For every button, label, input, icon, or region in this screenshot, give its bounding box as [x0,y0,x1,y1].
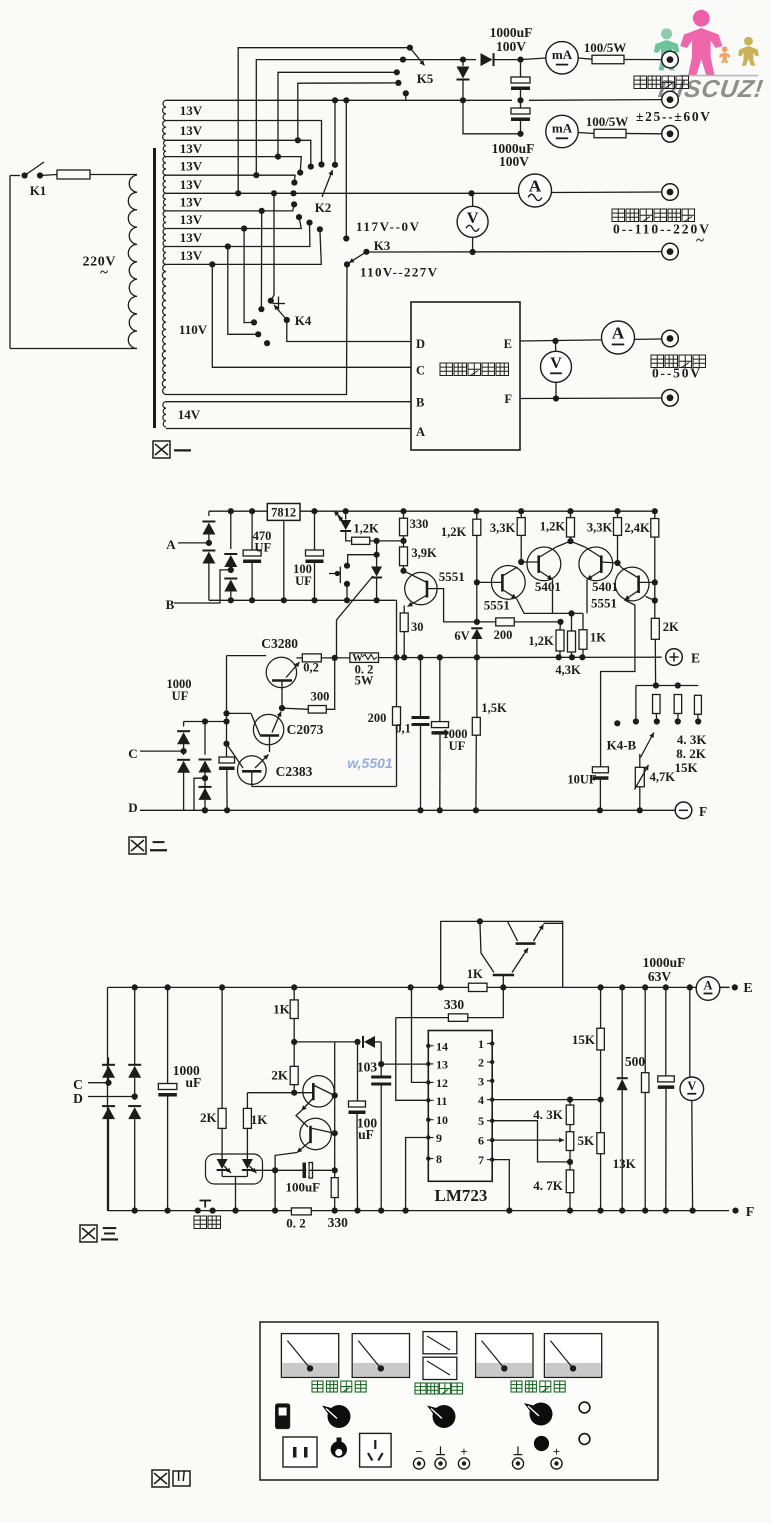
svg-text:⊥: ⊥ [513,1444,523,1458]
resistor 2K [651,618,659,639]
wire pin7 [492,1160,509,1211]
svg-text:K4-B: K4-B [607,738,637,753]
panel meter M1 [281,1334,338,1378]
push switch branch [348,555,377,566]
svg-text:1,2K: 1,2K [353,522,379,536]
svg-text:9: 9 [436,1131,442,1145]
switch K4 riser tap8 [244,229,254,323]
svg-text:100uF: 100uF [285,1180,320,1195]
svg-text:13V: 13V [180,195,203,210]
svg-text:4,3K: 4,3K [555,663,581,677]
switch K1 [22,172,28,178]
svg-text:V: V [467,209,479,227]
svg-text:0--110--220V: 0--110--220V [613,222,709,237]
resistor 0.2 left [302,654,321,662]
transistor Td 5551 [615,567,649,601]
svg-text:UF: UF [254,541,271,555]
svg-text:K4: K4 [295,313,312,328]
panel power switch [276,1404,290,1429]
svg-text:5551: 5551 [439,569,465,584]
meter V dc [541,351,572,382]
svg-text:10: 10 [436,1113,448,1127]
svg-text:1K: 1K [273,1002,291,1017]
svg-text:1: 1 [478,1037,484,1051]
svg-text:1K: 1K [590,631,606,645]
svg-text:13: 13 [436,1057,448,1071]
DC power board box [411,302,520,450]
svg-text:330: 330 [328,1215,349,1230]
transistor C3280 [266,657,296,687]
svg-text:V: V [550,354,562,372]
svg-text:100V: 100V [499,154,529,169]
switch K4 riser tap7 [260,211,262,309]
wire pin4 [492,1099,600,1101]
svg-text:4. 3K: 4. 3K [677,732,708,747]
wire pin11 to 330 line [396,1018,429,1101]
resistors 1.2K/4.3K/1K trio [556,630,564,651]
node 3.9K bottom [400,568,406,574]
label figure-1 [153,441,170,458]
wire board E output [520,339,662,341]
svg-text:F: F [746,1205,755,1220]
terminal out2 [662,91,679,108]
svg-text:14: 14 [436,1039,448,1053]
wire tap4 to K2 contact c3 [166,157,301,173]
svg-text:30: 30 [411,620,424,634]
wire D fig3 [88,1096,135,1098]
svg-text:220V: 220V [83,255,116,270]
svg-text:100/5W: 100/5W [584,40,627,55]
svg-text:D: D [73,1091,83,1106]
svg-text:K5: K5 [417,71,434,86]
svg-text:2: 2 [478,1056,484,1070]
diode column1 with A input [208,511,210,516]
svg-text:B: B [416,396,424,410]
column 3.3K a [517,518,525,536]
svg-text:uF: uF [186,1075,202,1090]
svg-text:100V: 100V [496,39,526,54]
svg-text:+: + [460,1444,467,1459]
nodes lower bus [332,655,338,661]
diode D1 output [460,57,466,63]
wire pin6 wiper [492,1139,564,1141]
svg-text:13V: 13V [180,141,203,156]
resistor 3.9K [400,547,408,566]
wire fig3 bottom bus [108,1210,730,1212]
svg-text:117V--0V: 117V--0V [356,219,420,234]
svg-text:E: E [743,981,752,996]
wire tap10 to K2 contact c9 [166,229,321,264]
node tap5/riser [253,172,259,178]
panel indicator circles [579,1402,590,1413]
wire Td emitter to cap 100F column [601,600,635,766]
wire fig2 mid bus [209,599,397,601]
switch K4 contacts [268,298,274,304]
wire D jog to column B [194,778,205,810]
svg-text:A: A [529,177,542,196]
column 3.3K b [614,518,622,536]
svg-text:1,5K: 1,5K [481,701,507,715]
capacitor column fig3 right [665,987,667,1076]
node tap10/riser [209,261,215,267]
meter mA1 [521,58,547,60]
terminal F fig2 [675,802,692,819]
resistor 1K in bus [469,983,488,991]
SCR column [376,541,378,567]
capacitor C2 1000uF 100V bottom [520,100,522,108]
svg-text:7812: 7812 [271,506,296,520]
LM723 right pins [490,1041,494,1045]
svg-text:14V: 14V [178,407,201,422]
svg-text:uF: uF [358,1127,374,1142]
wire 14V bottom to board A [166,428,411,430]
svg-text:5W: 5W [355,674,374,688]
diode column B fig2 [204,722,206,755]
node K2 c1 [318,161,324,167]
svg-text:1,2K: 1,2K [540,520,566,534]
svg-text:K2: K2 [315,200,332,215]
wire riser tap10 to board C [212,264,411,367]
fig3 top bus nodes [132,984,138,990]
svg-text:C2073: C2073 [287,722,324,737]
capacitor 100F [600,766,602,767]
svg-text:103: 103 [357,1060,378,1075]
wire fig2 bottom bus / D rail [140,809,675,811]
switch K5 [407,45,413,51]
wire 1K-col tie [247,1092,294,1094]
wire B input [174,570,231,603]
column C fig2 [226,656,228,757]
panel frame [260,1322,658,1480]
panel knob right [530,1403,553,1426]
svg-text:A: A [416,425,425,439]
meter V~ AC [457,206,488,237]
svg-text:200: 200 [494,628,513,642]
svg-text:1K: 1K [467,967,483,981]
panel meter M3a [423,1332,457,1354]
svg-text:A: A [704,979,713,993]
label zhi-liu-wen-ya [651,355,664,368]
LED branch with 1.2K [345,511,347,519]
wire to pin13 junction [380,1042,382,1076]
resistor 1.5K column [476,657,478,717]
svg-text:UF: UF [449,739,466,753]
label figure-3 [80,1225,97,1242]
svg-text:200: 200 [368,711,387,725]
transformer secondary 110V winding [162,264,166,394]
svg-text:A: A [612,324,625,343]
capacitor 470UF [251,511,253,550]
resistor 4.7K fig3 [566,1170,574,1193]
transformer secondary winding 13V sections [163,100,166,120]
K4-B wiper arrow [641,733,654,758]
switch K4 riser tap9 [228,247,258,335]
opto LED1 [217,1159,228,1169]
wire 220V primary loop [9,176,11,349]
capacitor 100UF fig2 [314,511,316,550]
svg-text:5K: 5K [578,1133,596,1148]
wire riser L3 [278,72,397,156]
wire riser L4 [298,83,399,140]
svg-text:E: E [504,337,512,351]
column 2K fig3 [221,987,223,1108]
transistor Q1 5551 [405,572,437,604]
panel right small circle knob [534,1436,549,1451]
panel socket three-slot [360,1433,392,1467]
switch K4 riser from tap6 [271,193,274,300]
svg-text:C2383: C2383 [276,764,313,779]
svg-text:2K: 2K [271,1068,289,1083]
nodes bottom bus [202,807,208,813]
svg-text:8. 2K: 8. 2K [676,746,707,761]
wire C input fig2 [140,750,184,752]
node E junction [552,338,558,344]
meter A~ AC [519,174,552,207]
node tap7/riser [259,208,265,214]
svg-text:5: 5 [478,1114,484,1128]
output darlington loop [441,921,563,987]
svg-text:B: B [166,597,175,612]
zener 6V [476,622,478,625]
wire riser to K5 pole line L1 [238,48,410,194]
wire fig2 lower bus to E [297,657,303,659]
svg-text:5551: 5551 [484,598,510,613]
svg-text:F: F [699,804,707,819]
svg-text:C: C [73,1077,83,1092]
column 330 fig3 [334,1042,336,1178]
transistor T2 output [493,974,514,977]
node tap9/riser [225,243,231,249]
node F junction [553,395,559,401]
fig3 diode col2 [134,987,136,1064]
svg-text:0,2: 0,2 [303,661,319,675]
column 500 [644,987,646,1072]
meter A dc [602,321,635,354]
transistor C2073 [253,714,283,744]
regulator 7812 [267,504,300,521]
svg-text:330: 330 [444,997,465,1012]
svg-text:8: 8 [436,1152,442,1166]
wire top h-line with diode [294,1041,357,1043]
node tap6 junctions [235,190,241,196]
wire riser L2 output row [256,60,463,176]
svg-text:C: C [128,746,137,761]
fuse F1 [40,175,57,176]
decor logo figures [654,10,765,103]
wire Q1 base to 200 [427,589,496,622]
wire board F output [520,397,662,400]
capacitor 103 [371,1076,391,1079]
wire opto to cap 100uF [247,1169,334,1171]
resistor 30 [400,613,408,632]
svg-text:4: 4 [478,1093,484,1107]
svg-text:1,2K: 1,2K [528,634,554,648]
svg-text:13V: 13V [180,177,203,192]
svg-text:1000uF: 1000uF [490,25,533,40]
column 1K fig3 [246,1093,248,1109]
svg-text:11: 11 [436,1094,447,1108]
switch K2 pole riser [334,100,336,165]
svg-text:A: A [166,537,176,552]
svg-text:C3280: C3280 [261,636,298,651]
wire A input [178,542,209,544]
panel meter M2 [352,1334,409,1378]
zener column fig3 [621,987,623,1078]
pot 5K [566,1132,574,1151]
column 2.4K [651,519,659,538]
wire K3 blade to 110V winding bottom [166,264,347,394]
svg-text:C: C [416,364,425,378]
transformer secondary 14V winding [163,402,166,427]
column 1.2K a [473,519,481,535]
switch K4 blade to board D [274,305,287,320]
capacitor 1000UF mid column [439,657,441,721]
opto LED2 [242,1159,253,1169]
panel knob AC [328,1405,351,1428]
wire pin12 to bus [412,987,429,1082]
LM723 box [428,1031,492,1182]
svg-text:5401: 5401 [535,579,561,594]
svg-text:4. 3K: 4. 3K [533,1107,564,1122]
transistor Qa fig3 [303,1076,334,1107]
svg-text:mA: mA [552,121,573,136]
nodes mid bus [228,597,234,603]
svg-text:63V: 63V [648,969,672,984]
panel toggle [337,1438,342,1445]
wire tap6 AC output line to A~ meter [166,192,519,194]
svg-text:⊥: ⊥ [435,1444,445,1458]
label jiao-liu-dian-yuan panel [312,1381,323,1392]
svg-text:13V: 13V [180,103,203,118]
svg-text:13V: 13V [180,212,203,227]
node tap4/riser [275,154,281,160]
svg-text:K3: K3 [374,238,391,253]
meter mA2 [546,115,578,147]
svg-text:13V: 13V [180,230,203,245]
wire tap8 to K2 contact c7 [166,217,301,228]
node tap3/riser [295,137,301,143]
svg-text:0. 2: 0. 2 [286,1216,306,1231]
svg-text:3,9K: 3,9K [411,546,437,560]
wire pin5 [492,1121,570,1162]
terminal AC1 [662,184,679,201]
column 1K top fig3 [290,1000,298,1019]
label jiao-liu-ge-li-tiao-ya [612,209,625,222]
svg-text:1000uF: 1000uF [643,955,686,970]
svg-text:+: + [553,1444,560,1459]
resistor 100/5W bottom [578,133,594,134]
svg-text:w,5501: w,5501 [347,755,393,771]
capacitor C1 1000uF 100V top [517,57,523,63]
svg-text:15K: 15K [572,1032,596,1047]
svg-text:1,2K: 1,2K [441,525,467,539]
svg-text:4. 7K: 4. 7K [533,1178,564,1193]
svg-text:500: 500 [625,1054,646,1069]
SCR gate wire [337,576,374,658]
nodes on top bus [228,508,234,514]
svg-text:K1: K1 [30,183,47,198]
svg-text:~: ~ [100,265,108,281]
label zhi-liu-dian-yuan panel [511,1381,522,1392]
label fu-wei [194,1216,207,1229]
svg-text:4,7K: 4,7K [650,770,676,784]
label figure-2 [129,837,146,854]
svg-text:2K: 2K [200,1110,218,1125]
terminal out1 [662,51,679,68]
wire tap3 to K2 contact c2 [166,140,311,166]
resistor 4.3K fig3 [566,1105,574,1125]
svg-text:110V--227V: 110V--227V [360,265,438,280]
transistor Qb fig3 [300,1118,331,1149]
svg-text:LM723: LM723 [435,1186,488,1205]
svg-text:13V: 13V [180,158,203,173]
wire fig3 left frame [107,987,109,1210]
svg-text:3: 3 [478,1074,484,1088]
column 15K 13K [600,987,602,1028]
resistor 100/5W top [578,58,592,59]
panel knob mid [433,1405,456,1428]
diode column A fig2 [183,722,185,727]
svg-text:15K: 15K [674,760,698,775]
wire pin9 [406,1138,429,1211]
switch K3 riser from bus [345,100,347,238]
wire tap9 to K2 contact c8 [166,223,310,247]
transistor T1 output [516,942,536,945]
fig3 bottom bus nodes [132,1208,138,1214]
svg-text:D: D [128,800,137,815]
transistor Tc 5401 [579,547,613,581]
terminal DC+ [662,330,679,347]
svg-text:F: F [504,392,512,406]
svg-text:7: 7 [478,1153,484,1167]
svg-text:13V: 13V [180,123,203,138]
terminal E fig2 [666,649,683,666]
svg-text:10UF: 10UF [567,773,597,787]
column 2K mid fig3 [290,1066,298,1084]
fig3 top bus [108,986,469,988]
transformer core [153,148,156,428]
column 1.2K b [567,518,575,537]
panel right terminals [512,1458,523,1469]
wire 7812 ground leg [283,520,285,600]
svg-text:6V: 6V [454,629,469,643]
capacitor 1000uF fig3 [167,987,169,1083]
terminal AC2 [662,243,679,260]
svg-text:100/5W: 100/5W [586,114,629,129]
transistor C2383 [238,756,267,785]
label zheng-fu-dian-yuan [634,76,647,89]
wire colA colC tie [184,721,227,723]
svg-text:mA: mA [552,47,573,62]
node 1.2K out [374,538,380,544]
switch K4 pole tick [273,303,286,305]
wire tap5 to K2 contact c4 [166,175,295,182]
svg-text:12: 12 [436,1076,448,1090]
resistor 330 fig3 top [396,1017,449,1019]
switch K2 pole and blade [332,162,338,168]
node 200 junctions [474,619,480,625]
capacitor 0.1 column [420,657,422,716]
panel socket two-slot [283,1437,317,1467]
svg-text:6: 6 [478,1134,484,1148]
terminal DC- [662,390,679,407]
svg-text:5401: 5401 [592,579,618,594]
wire 14V top to board B [166,401,411,403]
switch K4-B row [636,685,698,687]
svg-text:0,1: 0,1 [395,722,411,736]
node V~ bottom [470,249,476,255]
terminal out3 [662,126,679,143]
